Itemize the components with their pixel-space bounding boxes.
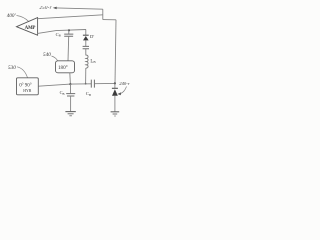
svg-text:530: 530: [8, 65, 16, 71]
svg-text:CB: CB: [60, 90, 65, 96]
ground: [111, 111, 120, 113]
node: [85, 83, 87, 85]
svg-text:LB: LB: [90, 59, 96, 64]
op-amp AMP: [17, 18, 38, 36]
wire stem D': [85, 30, 87, 36]
svg-text:AMP: AMP: [25, 26, 36, 31]
wire: [85, 49, 87, 56]
wire H4 right: [94, 82, 115, 84]
wire: [85, 40, 87, 46]
wire: [114, 96, 116, 112]
inductor LB: [86, 55, 88, 68]
svg-text:D′: D′: [90, 34, 94, 39]
leader 400': [17, 16, 30, 22]
capacitor CB shunt: [70, 84, 72, 93]
svg-text:240-r: 240-r: [119, 81, 129, 86]
wire coil to H4: [85, 68, 87, 84]
wire H3 from AMP bottom output: [38, 30, 86, 34]
leader 240-r: [121, 87, 127, 94]
wire cap to 180 box: [67, 36, 70, 61]
svg-text:HYB: HYB: [23, 89, 31, 93]
capacitor (below D'): [83, 46, 89, 48]
wire rail to diode: [114, 83, 116, 88]
wire right vertical rail: [115, 20, 116, 84]
capacitor CB top: [68, 30, 70, 34]
leader 530: [17, 67, 28, 78]
arrowhead left: [53, 7, 57, 10]
wire step to right rail: [103, 19, 116, 21]
svg-text:250-r: 250-r: [40, 6, 52, 11]
wire v-step: [102, 9, 104, 19]
ground: [65, 111, 75, 113]
svg-text:CB: CB: [86, 91, 91, 97]
block 0-90 hybrid: [17, 78, 39, 95]
wire box to H4: [69, 73, 72, 84]
svg-text:0° 90°: 0° 90°: [19, 83, 32, 88]
arrowhead 240-r: [117, 92, 121, 95]
svg-text:400′: 400′: [7, 13, 17, 19]
node junction CB top: [68, 29, 70, 31]
node: [69, 83, 71, 85]
svg-text:CB: CB: [56, 32, 61, 38]
leader 540: [52, 56, 58, 61]
diode (right rail): [112, 87, 118, 89]
svg-text:180°: 180°: [58, 64, 68, 71]
wire to ground: [70, 96, 72, 111]
diode D': [83, 34, 89, 36]
capacitor CB series: [91, 80, 94, 88]
svg-text:540: 540: [43, 51, 51, 58]
wire H4 mid: [70, 83, 91, 85]
wire H4 left: [39, 84, 71, 86]
block 180deg: [56, 61, 75, 73]
wire H2 from AMP top output: [38, 15, 103, 19]
node 240 junction: [114, 82, 116, 84]
wire H1 top: [57, 8, 103, 9]
